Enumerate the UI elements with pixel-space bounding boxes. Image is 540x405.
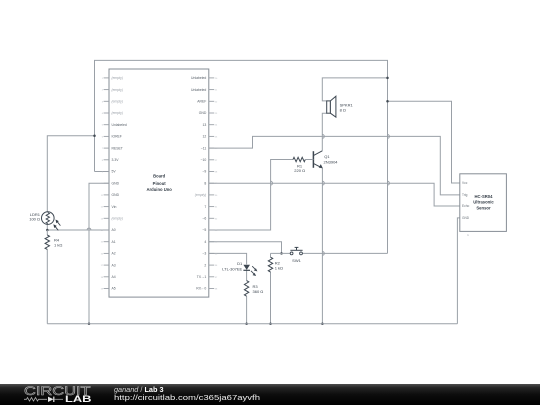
Arduino right pin 34: 4 [209, 241, 214, 243]
junction: R2 / ground rail [269, 322, 272, 325]
svg-text:Pinout: Pinout [153, 181, 167, 186]
wire: ground rail [47, 323, 457, 325]
svg-text:~11: ~11 [201, 146, 207, 150]
Arduino left pin 7: RESET [104, 147, 109, 149]
resistor R4 1 kohm [45, 235, 49, 249]
svg-text:(empty): (empty) [112, 111, 124, 115]
svg-text:4: 4 [204, 240, 206, 244]
Arduino left pin 6: IOREF [104, 135, 109, 137]
Arduino right pin 38: RX←0 [209, 288, 214, 290]
wire: speaker bottom to Q1 collector [322, 113, 326, 151]
svg-text:RX←0: RX←0 [196, 287, 206, 291]
Arduino right pin 31: 7 [209, 206, 214, 208]
speaker SPKR1 [327, 101, 331, 113]
wire hop: pin8 wire over emitter column [322, 181, 324, 185]
Arduino left pin 2: (empty) [104, 89, 109, 91]
svg-text:360 Ω: 360 Ω [253, 289, 264, 294]
resistor R1 220 ohm [293, 157, 305, 161]
svg-text:5V: 5V [112, 170, 117, 174]
svg-text:~10: ~10 [201, 158, 207, 162]
junction: speaker-top / 5V column [386, 77, 389, 80]
svg-text:Arduino Uno: Arduino Uno [147, 187, 173, 192]
Arduino left pin 16: A2 [104, 252, 109, 254]
svg-text:1 kΩ: 1 kΩ [54, 242, 62, 247]
svg-text:A3: A3 [112, 263, 116, 267]
Arduino right pin 36: 2 [209, 264, 214, 266]
svg-text:12: 12 [203, 135, 207, 139]
svg-text:GND: GND [199, 111, 207, 115]
svg-text:1 kΩ: 1 kΩ [275, 266, 283, 271]
wire: Q1 emitter column to ground rail [321, 168, 323, 324]
wire: 5V net top rail [95, 60, 388, 253]
Arduino right pin 21: Unlabeled [209, 89, 214, 91]
wire: Arduino pin ~5 riser to R1 [209, 160, 293, 231]
Arduino left pin 19: A5 [104, 288, 109, 290]
svg-text:~6: ~6 [202, 217, 206, 221]
svg-text:220 Ω: 220 Ω [294, 168, 305, 173]
Arduino left pin 17: A3 [104, 264, 109, 266]
Arduino right pin 29: 8 [209, 182, 214, 184]
svg-text:LTL-307EE: LTL-307EE [222, 267, 242, 272]
wire: LED cathode to R3 [246, 270, 248, 280]
Arduino Uno board pinout U1 [109, 69, 209, 297]
Arduino left pin 11: GND [104, 194, 109, 196]
wire: LDR top to 5V column [47, 136, 94, 212]
Arduino left pin 1: (empty) [104, 77, 109, 79]
junction: pin4 / R2 / SW1 node [280, 252, 283, 255]
Arduino left pin 14: A0 [104, 229, 109, 231]
wire: R4 bottom to ground rail [46, 249, 48, 323]
Arduino left pin 18: A4 [104, 276, 109, 278]
wire hop: pin11 wire over 5V column [388, 135, 390, 139]
wire: R2 bottom to ground rail [270, 272, 272, 324]
Arduino left pin 9: 5V [104, 171, 109, 173]
wire: LDR junction to Arduino A0 [47, 229, 109, 231]
Arduino right pin 33: ~5 [209, 229, 214, 231]
transistor Q1 2N3904 [312, 151, 314, 168]
junction: R3 / ground rail [245, 322, 248, 325]
svg-text:(empty): (empty) [112, 217, 124, 221]
wire hop: A0 wire over GND column [87, 228, 91, 230]
wire: R2 top lead [270, 253, 272, 257]
Arduino right pin 24: 13 [209, 124, 214, 126]
Arduino right pin 23: GND [209, 112, 214, 114]
svg-text:A4: A4 [112, 275, 116, 279]
wire: Arduino GND pin down to ground rail [89, 183, 109, 324]
svg-text:3.3V: 3.3V [112, 158, 120, 162]
wire: junction to R4 top [46, 230, 48, 235]
svg-text:HC-SR04: HC-SR04 [475, 194, 494, 199]
Arduino right pin 32: ~6 [209, 217, 214, 219]
resistor R2 1 kohm [268, 257, 272, 272]
wire: HC-SR04 GND down to ground rail [457, 218, 459, 324]
svg-text:Sensor: Sensor [476, 205, 491, 210]
svg-text:7: 7 [204, 205, 206, 209]
svg-text:A0: A0 [112, 228, 116, 232]
svg-text:GND: GND [462, 216, 470, 220]
junction: Arduino GND column / ground rail [88, 322, 91, 325]
svg-text:Ultrasonic: Ultrasonic [473, 199, 494, 204]
Arduino right pin 35: ~3 [209, 252, 214, 254]
wire hop: pin8 wire over 5V column [388, 181, 390, 185]
svg-text:~3: ~3 [202, 252, 206, 256]
svg-text:TX→1: TX→1 [197, 275, 207, 279]
svg-text:Unlabeled: Unlabeled [191, 88, 206, 92]
Arduino left pin 12: Vin [104, 206, 109, 208]
junction: emitter / ground rail [321, 322, 324, 325]
svg-text:8: 8 [204, 181, 206, 185]
wire: SW1 right terminal to 5V column [302, 252, 387, 254]
photoresistor LDR1 [42, 212, 55, 225]
svg-text:(empty): (empty) [112, 88, 124, 92]
svg-text:A2: A2 [112, 252, 116, 256]
svg-text:8 Ω: 8 Ω [340, 108, 346, 113]
Arduino left pin 5: Unlabeled [104, 124, 109, 126]
Arduino right pin 26: ~11 [209, 147, 214, 149]
Arduino right pin 20: Unlabeled [209, 77, 214, 79]
wire hop: pin11 wire over speaker column [322, 135, 324, 139]
svg-text:D1: D1 [237, 261, 243, 266]
svg-text:http://circuitlab.com/c365ja67: http://circuitlab.com/c365ja67ayvfh [114, 393, 260, 402]
svg-text:A1: A1 [112, 240, 116, 244]
wire: Arduino pin ~11 to HC-SR04 Trig [209, 136, 460, 195]
svg-text:100 Ω: 100 Ω [29, 217, 40, 222]
svg-text:2N3904: 2N3904 [324, 159, 339, 164]
svg-text:Unlabeled: Unlabeled [191, 76, 206, 80]
svg-text:Vin: Vin [112, 205, 117, 209]
Arduino right pin 22: AREF [209, 100, 214, 102]
svg-text:(empty): (empty) [112, 100, 124, 104]
Arduino left pin 4: (empty) [104, 112, 109, 114]
Arduino left pin 10: GND [104, 182, 109, 184]
CircuitLab logo: resistor-diode squiggle [24, 398, 47, 402]
CircuitLab footer bar [0, 384, 540, 405]
Arduino left pin 3: (empty) [104, 100, 109, 102]
svg-text:A5: A5 [112, 287, 116, 291]
svg-text:~5: ~5 [202, 228, 206, 232]
HC-SR04 ultrasonic sensor module [460, 174, 507, 232]
svg-text:LAB: LAB [65, 394, 92, 404]
svg-text:2: 2 [204, 263, 206, 267]
svg-text:Echo: Echo [462, 204, 469, 208]
junction: LDR branch on 5V riser [93, 135, 96, 138]
svg-text:(empty): (empty) [112, 76, 124, 80]
Arduino left pin 15: A1 [104, 241, 109, 243]
wire hop: SW1 wire over emitter column [322, 252, 324, 256]
Arduino right pin 25: 12 [209, 135, 214, 137]
svg-text:AREF: AREF [197, 100, 206, 104]
wire: Arduino pin ~3 down to LED D1 [209, 253, 247, 264]
resistor R3 360 ohm [244, 281, 248, 297]
push button SW1 [290, 252, 293, 255]
wire: 5V pin to left riser [95, 171, 110, 173]
wire: R2 top to SW1 left terminal [271, 252, 291, 254]
Arduino left pin 8: 3.3V [104, 159, 109, 161]
wire: Arduino pin 4 to button junction [209, 242, 282, 254]
LED D1 LTL-307EE [243, 265, 250, 270]
wire: LDR bottom to junction [46, 224, 48, 230]
svg-text:IOREF: IOREF [112, 135, 122, 139]
junction: LDR / R4 / A0 node [46, 229, 49, 232]
svg-text:13: 13 [203, 123, 207, 127]
Arduino right pin 30: (empty) [209, 194, 214, 196]
Arduino right pin 27: ~10 [209, 159, 214, 161]
wire: Arduino pin 8 to HC-SR04 Echo [209, 183, 460, 206]
svg-text:GND: GND [112, 193, 120, 197]
svg-text:Unlabeled: Unlabeled [112, 123, 127, 127]
junction: Vcc branch on 5V column [386, 100, 389, 103]
Arduino left pin 13: (empty) [104, 217, 109, 219]
wire: speaker top to 5V column [322, 78, 387, 101]
svg-text:(empty): (empty) [195, 193, 207, 197]
wire: R3 bottom to ground rail [246, 296, 248, 324]
svg-text:SW1: SW1 [292, 258, 301, 263]
svg-text:GND: GND [112, 181, 120, 185]
svg-text:~9: ~9 [202, 170, 206, 174]
svg-text:Board: Board [153, 174, 166, 179]
Arduino right pin 37: TX→1 [209, 276, 214, 278]
wire hop: pin5 riser over pin8 wire [271, 181, 273, 185]
svg-text:Trig: Trig [462, 193, 468, 197]
svg-text:Vcc: Vcc [462, 181, 468, 185]
wire: 5V to HC-SR04 Vcc [388, 101, 460, 183]
Arduino right pin 28: ~9 [209, 171, 214, 173]
svg-text:RESET: RESET [112, 146, 123, 150]
